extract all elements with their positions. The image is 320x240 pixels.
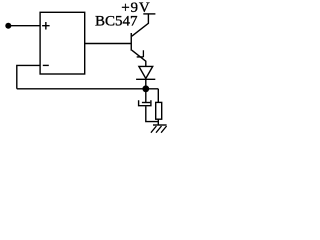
wire: capacitor bottom to ground node xyxy=(146,106,159,121)
wire: input to op-amp + xyxy=(11,25,41,27)
diode D1 cathode bar xyxy=(136,78,155,80)
transistor Q1: collector xyxy=(132,14,149,36)
ground symbol bar xyxy=(153,124,167,126)
capacitor C1: top plate xyxy=(142,102,150,104)
transistor Q1 BC547: base bar xyxy=(130,33,132,51)
wire: diode to junction xyxy=(145,79,147,86)
op-amp - input label xyxy=(43,64,49,66)
op-amp + input label xyxy=(42,22,50,30)
+9V supply terminal bar xyxy=(143,13,155,15)
wire: bottom rail xyxy=(17,88,159,90)
wire: feedback from - input down to bottom rail xyxy=(17,65,40,88)
capacitor C1: bottom cup plate xyxy=(139,100,151,106)
op-amp U1 (comparator box) xyxy=(40,12,85,74)
capacitor C1: lead from junction xyxy=(145,92,147,103)
node: input terminal dot xyxy=(5,23,11,29)
wire: resistor bottom to ground xyxy=(157,119,159,125)
transistor Q1: emitter with arrow xyxy=(132,50,146,66)
svg-text:BC547: BC547 xyxy=(95,13,138,29)
node: junction dot xyxy=(142,85,149,92)
wire: op-amp output to transistor base xyxy=(85,43,131,45)
resistor R1 body xyxy=(156,102,162,119)
wire: junction to resistor top xyxy=(157,89,159,103)
diode D1 (triangle) xyxy=(139,66,153,78)
ground hatches xyxy=(151,126,167,133)
